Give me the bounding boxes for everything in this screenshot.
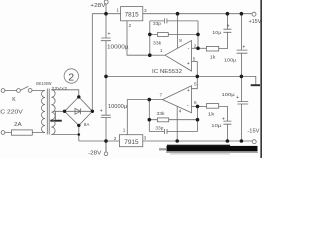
- svg-text:33k: 33k: [157, 111, 166, 116]
- svg-text:10µ: 10µ: [211, 123, 221, 128]
- svg-text:7915: 7915: [124, 139, 139, 146]
- svg-text:1: 1: [160, 48, 163, 53]
- svg-text:100µ: 100µ: [222, 92, 236, 97]
- svg-text:+: +: [227, 24, 230, 30]
- svg-text:+: +: [100, 108, 103, 114]
- svg-text:+: +: [108, 32, 111, 38]
- svg-text:+: +: [187, 88, 190, 94]
- svg-text:+: +: [187, 61, 190, 67]
- svg-text:8: 8: [179, 38, 182, 43]
- svg-text:2: 2: [194, 43, 197, 48]
- svg-text:100µ: 100µ: [224, 57, 237, 62]
- svg-text:33p: 33p: [155, 125, 163, 130]
- svg-text:-28V: -28V: [88, 150, 102, 156]
- svg-text:+: +: [222, 116, 225, 122]
- svg-text:+15V: +15V: [249, 19, 262, 25]
- svg-text:7: 7: [160, 93, 163, 98]
- svg-text:2: 2: [68, 72, 74, 84]
- svg-text:6: 6: [194, 100, 197, 105]
- svg-text:+: +: [242, 45, 245, 51]
- svg-text:1: 1: [116, 8, 119, 13]
- svg-text:10000µ: 10000µ: [108, 104, 127, 110]
- svg-text:+28V: +28V: [90, 3, 106, 9]
- svg-text:1k: 1k: [210, 55, 216, 60]
- svg-text:-: -: [187, 103, 189, 109]
- svg-text:22V×2: 22V×2: [51, 86, 67, 92]
- svg-text:2: 2: [114, 136, 117, 141]
- svg-text:-15V: -15V: [247, 129, 259, 135]
- svg-text:IC NE5532: IC NE5532: [152, 69, 182, 75]
- svg-text:5: 5: [193, 57, 196, 62]
- svg-text:1k: 1k: [208, 111, 215, 116]
- svg-text:1: 1: [123, 128, 126, 133]
- svg-text:5: 5: [194, 81, 197, 86]
- svg-text:4: 4: [179, 109, 182, 114]
- svg-text:2: 2: [129, 23, 132, 28]
- svg-text:3: 3: [144, 135, 147, 140]
- svg-text:AC 220V: AC 220V: [0, 110, 23, 116]
- svg-text:-: -: [188, 46, 190, 52]
- svg-text:33p: 33p: [153, 21, 161, 26]
- svg-text:10000µ: 10000µ: [107, 45, 129, 51]
- svg-text:3: 3: [144, 8, 147, 13]
- svg-text:7815: 7815: [125, 12, 140, 19]
- svg-text:8A: 8A: [84, 122, 90, 128]
- svg-text:BK100W: BK100W: [36, 81, 52, 86]
- svg-text:10µ: 10µ: [212, 30, 221, 35]
- svg-text:+: +: [236, 95, 239, 101]
- svg-text:2A: 2A: [14, 122, 22, 128]
- svg-text:K: K: [12, 97, 16, 103]
- svg-text:33k: 33k: [153, 40, 162, 45]
